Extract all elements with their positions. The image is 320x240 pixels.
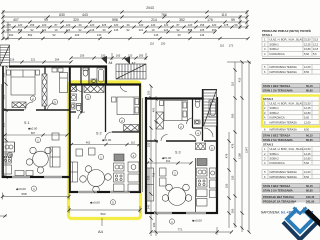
S1 armchair bbox=[52, 133, 59, 140]
top dimension lines bbox=[3, 10, 248, 40]
S2 bedroom wardrobe hatched bbox=[124, 125, 139, 132]
svg-text:120: 120 bbox=[42, 23, 47, 27]
svg-text:A4: A4 bbox=[109, 61, 113, 65]
svg-text:5,60: 5,60 bbox=[304, 115, 310, 119]
svg-text:240: 240 bbox=[147, 204, 151, 209]
legend table stan1 terraces bbox=[262, 65, 320, 75]
svg-text:31,50: 31,50 bbox=[304, 147, 311, 151]
wall S1 bottom with windows bbox=[2, 176, 71, 178]
svg-text:87: 87 bbox=[177, 23, 180, 27]
svg-text:30: 30 bbox=[178, 33, 181, 37]
S3 mid wall bbox=[146, 140, 217, 142]
S2 armchair + cupboard bbox=[76, 149, 83, 156]
S1 bath toilet bbox=[83, 70, 88, 76]
svg-text:150: 150 bbox=[231, 175, 235, 180]
svg-text:STAN 2: STAN 2 bbox=[263, 97, 273, 101]
S3 kitchen right column bbox=[210, 168, 217, 178]
bottom dim line S3 bbox=[151, 227, 232, 235]
svg-text:598: 598 bbox=[21, 192, 26, 196]
S3 interior dim line bbox=[147, 162, 193, 164]
S3 dining table bbox=[168, 188, 186, 206]
wall S2 right bbox=[139, 84, 141, 193]
interior stair S3 bbox=[204, 90, 217, 126]
svg-text:224: 224 bbox=[66, 28, 71, 32]
svg-text:630: 630 bbox=[59, 13, 65, 17]
S3 bath wall bbox=[192, 98, 194, 128]
svg-text:320: 320 bbox=[147, 142, 151, 147]
svg-text:STAN 3 SA TERASAMA: STAN 3 SA TERASAMA bbox=[263, 188, 293, 192]
svg-text:STAN 3 BEZ TERASA: STAN 3 BEZ TERASA bbox=[263, 184, 290, 188]
svg-text:892: 892 bbox=[28, 33, 33, 37]
svg-text:10: 10 bbox=[152, 28, 155, 32]
svg-text:352: 352 bbox=[179, 18, 185, 22]
svg-text:STAN 3: STAN 3 bbox=[263, 143, 273, 147]
svg-text:◆±0,00: ◆±0,00 bbox=[16, 187, 26, 191]
svg-text:120: 120 bbox=[139, 23, 144, 27]
svg-text:8,50: 8,50 bbox=[304, 70, 310, 74]
svg-text:92: 92 bbox=[53, 33, 56, 37]
logo dark chevron bbox=[283, 222, 317, 240]
svg-text:87: 87 bbox=[55, 23, 58, 27]
S3 shelf rects bbox=[160, 168, 167, 176]
svg-text:241,95: 241,95 bbox=[306, 199, 315, 203]
axis marker A4 bottom bbox=[101, 218, 103, 226]
svg-text:300: 300 bbox=[9, 33, 14, 37]
svg-text:8,50: 8,50 bbox=[304, 175, 310, 179]
svg-text:SOBA 2: SOBA 2 bbox=[270, 156, 280, 160]
S3 landing door arc bbox=[204, 128, 213, 137]
svg-text:ULAZ, H. BOR., KUH., BLAG.: ULAZ, H. BOR., KUH., BLAG. bbox=[270, 38, 305, 42]
dim line above S1 roof bbox=[2, 61, 71, 63]
yellow highlight box around unit S2 bbox=[69, 82, 141, 219]
left vertical dim chain bbox=[2, 62, 7, 178]
svg-text:60,15: 60,15 bbox=[306, 184, 313, 188]
svg-text:92: 92 bbox=[177, 28, 180, 32]
logo blue diamond bbox=[287, 206, 313, 232]
svg-text:320: 320 bbox=[73, 18, 79, 22]
S3 stairwell wall bbox=[202, 89, 204, 141]
svg-text:156: 156 bbox=[30, 23, 35, 27]
svg-text:150: 150 bbox=[161, 42, 166, 46]
section marker A4 top bbox=[101, 56, 113, 65]
svg-text:476: 476 bbox=[225, 153, 229, 158]
S1 interior dim line bbox=[4, 134, 68, 136]
wall step right of S1 top bbox=[105, 66, 107, 86]
svg-text:221: 221 bbox=[42, 28, 47, 32]
svg-text:92: 92 bbox=[79, 28, 82, 32]
svg-text:PRODAJE BEZ TERASA: PRODAJE BEZ TERASA bbox=[263, 195, 294, 199]
S1 kitchen counter bbox=[4, 142, 15, 152]
svg-text:1156: 1156 bbox=[238, 153, 242, 159]
svg-text:12,00: 12,00 bbox=[304, 120, 311, 124]
wall S1 left bbox=[2, 66, 4, 179]
svg-text:180,45: 180,45 bbox=[306, 195, 315, 199]
svg-text:1547: 1547 bbox=[245, 147, 249, 153]
svg-text:120: 120 bbox=[66, 23, 71, 27]
svg-text:92: 92 bbox=[31, 28, 34, 32]
svg-text:221: 221 bbox=[139, 28, 144, 32]
party wall S1/S2 bbox=[69, 66, 71, 193]
svg-text:300: 300 bbox=[152, 222, 156, 227]
svg-text:330: 330 bbox=[147, 175, 151, 180]
S1 bath sink bbox=[91, 79, 97, 83]
S3 bath toilet bbox=[195, 102, 200, 108]
S3 bath tub bbox=[209, 100, 217, 117]
svg-text:178: 178 bbox=[6, 23, 11, 27]
svg-text:120: 120 bbox=[128, 54, 133, 58]
svg-text:146: 146 bbox=[154, 33, 159, 37]
S2 bath sink bbox=[71, 103, 76, 109]
svg-text:SOBA 2: SOBA 2 bbox=[270, 47, 280, 51]
svg-text:80,65: 80,65 bbox=[306, 138, 313, 142]
bed S1 bedroom2 bbox=[60, 73, 68, 93]
svg-text:120: 120 bbox=[188, 23, 193, 27]
svg-text:443: 443 bbox=[82, 13, 88, 17]
wall S3 bottom with windows bbox=[145, 212, 218, 214]
S2 bedroom nightstand bbox=[112, 97, 117, 102]
svg-text:300: 300 bbox=[231, 208, 235, 213]
svg-text:110: 110 bbox=[220, 44, 225, 48]
svg-text:110: 110 bbox=[131, 140, 136, 144]
S2 bedroom wall bottom bbox=[112, 131, 140, 133]
S2 bath shower bbox=[71, 86, 77, 92]
S3 wardrobe hatched bbox=[156, 112, 164, 129]
svg-text:462: 462 bbox=[86, 140, 91, 144]
svg-text:888: 888 bbox=[188, 28, 193, 32]
svg-text:12,2: 12,2 bbox=[313, 42, 319, 46]
svg-text:450: 450 bbox=[152, 107, 156, 112]
S2 dining table bbox=[88, 170, 105, 187]
svg-text:NATKRIVENA TERASA: NATKRIVENA TERASA bbox=[270, 70, 298, 74]
logo blue peaks bbox=[294, 208, 307, 214]
svg-text:59: 59 bbox=[235, 23, 238, 27]
svg-text:◆±0,00: ◆±0,00 bbox=[90, 201, 100, 205]
nightstands bed1 bbox=[7, 70, 11, 75]
svg-text:◆±0,00: ◆±0,00 bbox=[28, 127, 38, 131]
svg-text:146: 146 bbox=[114, 28, 119, 32]
wall between S1 bedrooms bbox=[44, 67, 46, 110]
svg-text:PRODAJE SA TERASAMA: PRODAJE SA TERASAMA bbox=[263, 199, 296, 203]
legend row after yellow bbox=[264, 127, 310, 131]
legend stan3 totals bbox=[262, 184, 320, 193]
S2 bath toilet bbox=[76, 105, 80, 111]
wall S2 top (under yellow) bbox=[69, 83, 141, 85]
svg-text:NATKRIVENA TERASA: NATKRIVENA TERASA bbox=[270, 170, 298, 174]
svg-text:S 1: S 1 bbox=[24, 121, 30, 125]
svg-text:2043: 2043 bbox=[146, 6, 154, 10]
svg-text:STAN 2 BEZ TERASA: STAN 2 BEZ TERASA bbox=[263, 134, 290, 138]
svg-text:156: 156 bbox=[200, 23, 205, 27]
legend stan1 totals bbox=[262, 84, 320, 93]
svg-text:10: 10 bbox=[55, 28, 58, 32]
svg-text:99: 99 bbox=[44, 18, 48, 22]
legend stan3 terraces bbox=[262, 170, 320, 179]
S2 kitchen dark top bbox=[114, 154, 124, 161]
svg-text:156: 156 bbox=[80, 54, 85, 58]
S2 kitchen column bbox=[114, 163, 125, 171]
svg-text:31,50: 31,50 bbox=[304, 102, 311, 106]
svg-text:60,15: 60,15 bbox=[306, 134, 313, 138]
svg-text:30: 30 bbox=[103, 28, 106, 32]
svg-text:229: 229 bbox=[75, 33, 80, 37]
svg-text:KUPAONICA: KUPAONICA bbox=[270, 115, 285, 119]
S2 hall closet hatched bbox=[84, 86, 104, 93]
S3 kitchen column bbox=[197, 168, 208, 176]
S1 sofa bbox=[50, 147, 60, 167]
wall S3 right bbox=[216, 97, 218, 214]
svg-text:110: 110 bbox=[221, 13, 227, 17]
svg-text:120: 120 bbox=[114, 23, 119, 27]
svg-text:10,80: 10,80 bbox=[304, 47, 311, 51]
bottom dim line S2 bbox=[69, 206, 140, 213]
svg-text:146: 146 bbox=[90, 28, 95, 32]
svg-text:120: 120 bbox=[164, 23, 169, 27]
svg-text:31,5: 31,5 bbox=[313, 38, 319, 42]
svg-text:31,50: 31,50 bbox=[304, 38, 311, 42]
svg-text:150: 150 bbox=[225, 183, 229, 188]
wall S1 top bbox=[9, 65, 107, 67]
S3 doors bbox=[161, 135, 168, 142]
S1 dining table bbox=[33, 151, 49, 167]
svg-text:216: 216 bbox=[10, 58, 15, 62]
svg-text:165: 165 bbox=[116, 54, 121, 58]
svg-text:264: 264 bbox=[55, 58, 60, 62]
svg-text:SOBA 1: SOBA 1 bbox=[270, 106, 280, 110]
thin lines between S2 and S3 bbox=[142, 98, 144, 192]
svg-text:407: 407 bbox=[13, 18, 19, 22]
small mark bottom-left bbox=[0, 215, 7, 217]
svg-text:80,65: 80,65 bbox=[306, 88, 313, 92]
logo black band bbox=[307, 211, 320, 226]
S1 bath tub bbox=[97, 68, 105, 84]
svg-text:176: 176 bbox=[207, 18, 213, 22]
legend table stan1 bbox=[262, 37, 320, 56]
S2 bath right wall bbox=[81, 85, 83, 112]
wall S2 bottom with windows bbox=[69, 191, 141, 193]
svg-text:NATKRIVENA TERASA: NATKRIVENA TERASA bbox=[270, 127, 298, 131]
svg-text:SOBA 1: SOBA 1 bbox=[270, 152, 280, 156]
svg-text:KUPAONICA: KUPAONICA bbox=[270, 161, 285, 165]
S1 sideboard by window bbox=[15, 171, 24, 176]
svg-text:146: 146 bbox=[200, 33, 205, 37]
svg-text:STAN 1 SA TERASAMA: STAN 1 SA TERASAMA bbox=[263, 88, 293, 92]
svg-text:285: 285 bbox=[139, 54, 144, 58]
svg-text:ULAZ, H. BOR., KUH., BLAG.: ULAZ, H. BOR., KUH., BLAG. bbox=[270, 102, 305, 106]
S3 landing closet hatched bbox=[196, 143, 206, 150]
S2 bedroom bed bbox=[117, 97, 140, 115]
bottom dim line S1 bbox=[3, 193, 70, 200]
svg-text:◆±0,00: ◆±0,00 bbox=[192, 219, 202, 223]
svg-text:5,6: 5,6 bbox=[313, 52, 317, 56]
svg-text:120: 120 bbox=[212, 23, 217, 27]
top dim ticks row6 bbox=[1, 37, 249, 40]
top dim ticks row4 bbox=[1, 25, 248, 28]
top dim ticks row3 bbox=[1, 20, 248, 23]
exterior entrance stair bbox=[116, 64, 146, 79]
S3 bed bbox=[164, 101, 188, 121]
svg-text:NATKRIVENA TERASA: NATKRIVENA TERASA bbox=[270, 175, 298, 179]
dim cluster above entrance stair bbox=[71, 53, 146, 60]
svg-text:462: 462 bbox=[166, 159, 171, 163]
svg-text:476: 476 bbox=[231, 143, 235, 148]
yellow highlight box around legend STAN 2 block bbox=[262, 96, 320, 127]
svg-text:105: 105 bbox=[200, 28, 205, 32]
svg-text:8,50: 8,50 bbox=[304, 127, 310, 131]
svg-text:140: 140 bbox=[151, 23, 156, 27]
legend stan2 totals bbox=[262, 133, 320, 142]
closet bedroom1 hatched bbox=[12, 102, 26, 108]
svg-text:5,60: 5,60 bbox=[304, 52, 310, 56]
svg-text:NATKRIVENA TERASA: NATKRIVENA TERASA bbox=[270, 120, 298, 124]
svg-text:120: 120 bbox=[90, 23, 95, 27]
svg-text:105: 105 bbox=[6, 28, 11, 32]
svg-text:92: 92 bbox=[127, 28, 130, 32]
logo notch cut bbox=[294, 203, 306, 215]
svg-text:325: 325 bbox=[102, 23, 107, 27]
svg-text:12,25: 12,25 bbox=[304, 106, 311, 110]
top dim labels bbox=[13, 6, 235, 22]
svg-text:771: 771 bbox=[177, 228, 182, 232]
S2 interior dim line bbox=[71, 144, 140, 146]
svg-text:224: 224 bbox=[164, 28, 169, 32]
svg-text:12,00: 12,00 bbox=[304, 65, 311, 69]
svg-text:30: 30 bbox=[127, 23, 130, 27]
S2 bath bottom wall bbox=[70, 111, 76, 113]
svg-text:300: 300 bbox=[212, 28, 217, 32]
svg-text:STAN 1 BEZ TERASA: STAN 1 BEZ TERASA bbox=[263, 84, 290, 88]
svg-text:NATKRIVENA TERASA: NATKRIVENA TERASA bbox=[270, 65, 298, 69]
wall S3 left bbox=[145, 97, 147, 214]
svg-text:593: 593 bbox=[100, 212, 105, 216]
S1 hall wall piece bbox=[88, 67, 90, 84]
svg-text:888: 888 bbox=[18, 28, 23, 32]
wall S3 top bbox=[145, 97, 218, 99]
svg-text:◆±0,00: ◆±0,00 bbox=[102, 138, 112, 142]
svg-text:10,8: 10,8 bbox=[313, 47, 319, 51]
section marker A2 top bbox=[124, 57, 136, 66]
svg-text:S 2: S 2 bbox=[96, 132, 102, 136]
S2 bedroom wall vertical bbox=[105, 85, 107, 132]
middle vertical dim chain bbox=[151, 86, 156, 236]
svg-text:214: 214 bbox=[151, 18, 157, 22]
svg-text:59: 59 bbox=[231, 18, 235, 22]
svg-text:10,80: 10,80 bbox=[304, 156, 311, 160]
svg-text:300: 300 bbox=[231, 113, 235, 118]
svg-text:5,60: 5,60 bbox=[304, 161, 310, 165]
S3 nightstand bbox=[160, 101, 164, 106]
S2 bath washer bbox=[71, 94, 77, 101]
S1 bath wall bbox=[80, 67, 82, 84]
svg-text:80,65: 80,65 bbox=[306, 188, 313, 192]
svg-text:140: 140 bbox=[97, 33, 102, 37]
bed S1 bedroom1 bbox=[11, 70, 35, 95]
svg-text:12,00: 12,00 bbox=[304, 170, 311, 174]
exterior stair top-left bbox=[0, 45, 10, 66]
S1 shaft hatched bbox=[42, 74, 47, 106]
right vertical dim chains bbox=[227, 62, 251, 232]
svg-text:697: 697 bbox=[31, 131, 36, 135]
svg-text:110: 110 bbox=[231, 81, 235, 86]
svg-text:60,15: 60,15 bbox=[306, 84, 313, 88]
svg-text:ULAZ, H. BOR., KUH., BLAG.: ULAZ, H. BOR., KUH., BLAG. bbox=[270, 147, 305, 151]
svg-text:12,25: 12,25 bbox=[304, 152, 311, 156]
svg-text:172: 172 bbox=[229, 44, 234, 48]
S2 doors bbox=[78, 112, 85, 119]
svg-text:STAN 2 SA TERASAMA: STAN 2 SA TERASAMA bbox=[263, 138, 293, 142]
svg-text:120: 120 bbox=[18, 23, 23, 27]
S3 kitchen dark top bbox=[197, 159, 207, 166]
S3 bath sink bbox=[195, 120, 201, 124]
top dim ticks row2 bbox=[1, 15, 248, 18]
S2 kitchen right column bbox=[128, 162, 139, 172]
S2 sofa bbox=[71, 162, 78, 182]
top dim ticks row1 bbox=[1, 10, 248, 13]
svg-text:STAN 1: STAN 1 bbox=[262, 33, 272, 37]
svg-text:766: 766 bbox=[161, 13, 167, 17]
svg-text:S 3: S 3 bbox=[175, 151, 181, 155]
top dim ticks row5 bbox=[1, 30, 216, 33]
svg-text:598: 598 bbox=[112, 18, 118, 22]
svg-text:30: 30 bbox=[79, 23, 82, 27]
svg-text:221: 221 bbox=[31, 58, 36, 62]
svg-text:12,25: 12,25 bbox=[304, 42, 311, 46]
svg-text:10,80: 10,80 bbox=[304, 111, 311, 115]
svg-text:KUPAONICA: KUPAONICA bbox=[270, 52, 285, 56]
svg-text:A4: A4 bbox=[98, 229, 104, 234]
small cabinets bedroom2 bbox=[52, 68, 57, 72]
svg-text:SOBA 1: SOBA 1 bbox=[270, 42, 280, 46]
S1 doors bbox=[25, 102, 33, 110]
svg-text:410: 410 bbox=[238, 77, 242, 82]
legend totals all bbox=[262, 195, 320, 204]
svg-text:110: 110 bbox=[150, 42, 155, 46]
svg-text:178: 178 bbox=[224, 23, 229, 27]
svg-text:150: 150 bbox=[147, 90, 151, 95]
wall below S1 bedrooms bbox=[3, 109, 70, 111]
svg-text:SOBA 2: SOBA 2 bbox=[270, 111, 280, 115]
S3 sofa bbox=[147, 168, 154, 201]
